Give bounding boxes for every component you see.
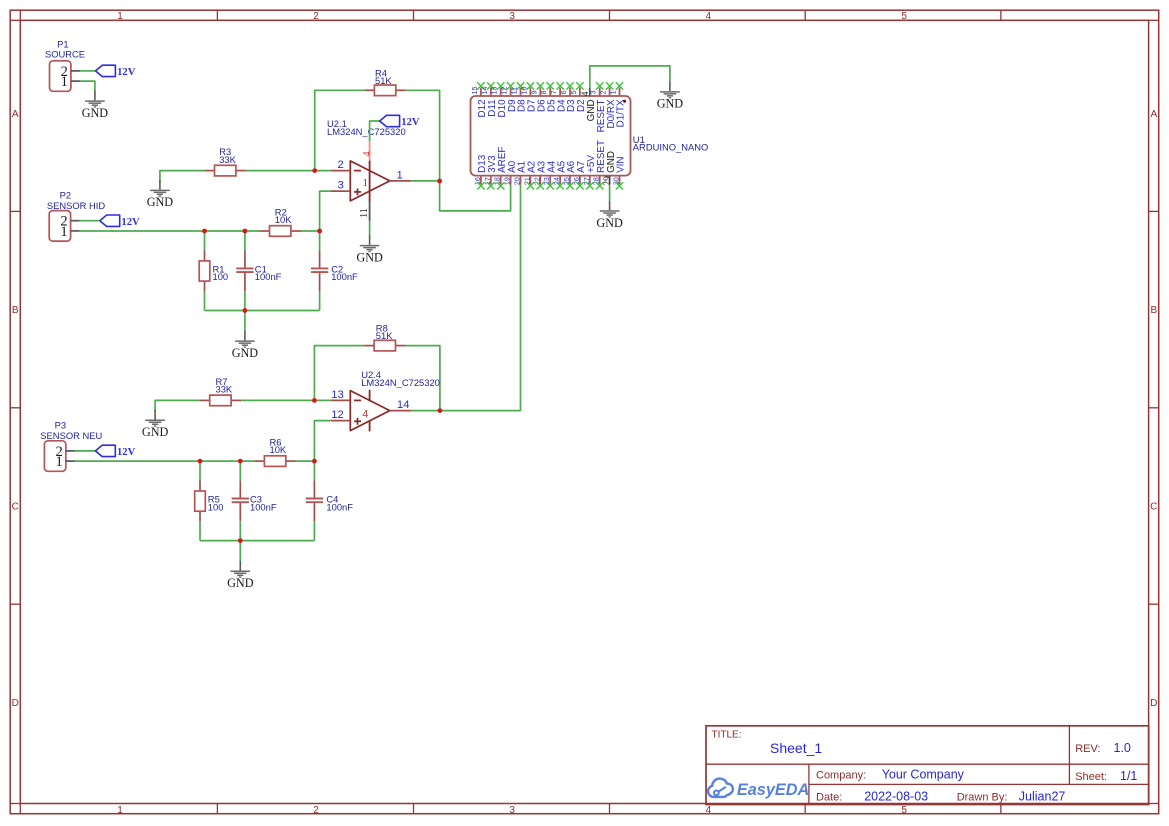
svg-text:12V: 12V	[121, 217, 140, 228]
junction at 240.3,461.1	[238, 459, 243, 464]
net flag 12V at P3	[95, 445, 135, 458]
wire output U2.1	[411, 180, 439, 182]
svg-text:10K: 10K	[275, 214, 292, 225]
wire P2 pin2 to 12V	[80, 220, 100, 222]
no-connect X U1 pin 24	[556, 182, 563, 189]
svg-text:23: 23	[543, 177, 551, 185]
U1 top pin 10 (D7)	[520, 86, 537, 112]
svg-text:Drawn By:: Drawn By:	[957, 791, 1008, 803]
U1 top pin 14 (D11)	[481, 86, 498, 116]
svg-text:1: 1	[363, 177, 369, 189]
svg-text:12: 12	[501, 86, 509, 94]
wire R4 riser left	[315, 90, 365, 170]
title block frame	[706, 726, 1149, 805]
svg-text:A: A	[1150, 109, 1157, 120]
svg-text:7: 7	[550, 90, 558, 94]
U1 bottom pin 28 (RESET)	[593, 140, 607, 185]
svg-text:D: D	[1150, 698, 1157, 709]
no-connect X U1 pin 23	[547, 182, 554, 189]
wire node to opamp pin12 riser	[314, 421, 330, 462]
svg-text:5: 5	[901, 11, 907, 22]
svg-text:1: 1	[396, 169, 402, 181]
svg-text:1.0: 1.0	[1114, 741, 1131, 755]
wire P1 pin1 to GND	[80, 81, 95, 91]
title block Company	[816, 768, 965, 782]
wire C4 to bottom rail	[313, 521, 315, 541]
wire R4 right down to output	[406, 90, 440, 181]
U1 bottom pin 18 (AREF)	[494, 147, 508, 186]
U1 top pin 7 (D4)	[550, 88, 567, 112]
no-connect X U1 pin 9	[537, 82, 544, 89]
svg-text:2: 2	[313, 11, 319, 22]
svg-text:4: 4	[362, 152, 373, 157]
junction at 314.7,170.6	[312, 168, 317, 173]
wire C2 to bottom rail	[319, 291, 321, 311]
pin 3 non-inverting input U2.1	[331, 180, 351, 192]
EasyEDA logo	[708, 779, 809, 799]
svg-text:51K: 51K	[376, 330, 393, 341]
no-connect X U1 pin 25	[566, 182, 573, 189]
pin 2 inverting input U2.1	[331, 159, 351, 171]
svg-text:Sheet:: Sheet:	[1075, 771, 1107, 783]
no-connect X U1 pin 1	[616, 82, 623, 89]
U1 bottom pin 21 (A2)	[523, 161, 537, 185]
junction at 439.6,181.0	[437, 179, 442, 184]
svg-text:1: 1	[117, 805, 123, 816]
no-connect X U1 pin 13	[497, 82, 504, 89]
svg-text:12V: 12V	[117, 447, 136, 458]
pin 4 power stub U2.4	[369, 390, 371, 401]
svg-text:27: 27	[583, 177, 591, 185]
wire C1 branch	[244, 231, 246, 251]
connector P1 SOURCE	[45, 38, 85, 91]
svg-text:SENSOR HID: SENSOR HID	[47, 200, 106, 211]
svg-text:GND: GND	[657, 97, 684, 111]
svg-text:3: 3	[509, 11, 515, 22]
junction at 314.4,461.1	[312, 459, 317, 464]
svg-text:1: 1	[61, 74, 68, 90]
svg-text:Julian27: Julian27	[1019, 789, 1066, 803]
svg-text:B: B	[12, 305, 19, 316]
svg-text:Company:: Company:	[816, 770, 866, 782]
wire output to A0 pin19	[440, 181, 511, 211]
svg-text:14: 14	[481, 86, 489, 94]
resistor R2 10K	[260, 207, 301, 237]
svg-text:1: 1	[56, 454, 63, 470]
svg-text:11: 11	[359, 208, 370, 218]
svg-text:100nF: 100nF	[331, 271, 358, 282]
svg-text:B: B	[1150, 305, 1157, 316]
no-connect X U1 pin 15	[477, 82, 484, 89]
junction at 200.0,461.1	[198, 459, 203, 464]
IC U1 ARDUINO_NANO body	[471, 96, 709, 176]
svg-text:14: 14	[397, 399, 410, 411]
svg-text:22: 22	[533, 177, 541, 185]
svg-text:GND: GND	[227, 576, 254, 590]
U1 top pin 3 (RESET)	[590, 88, 607, 133]
svg-text:GND: GND	[232, 346, 259, 360]
svg-text:30: 30	[613, 177, 621, 185]
svg-text:EasyEDA: EasyEDA	[737, 781, 809, 799]
no-connect X U1 pin 10	[527, 82, 534, 89]
U1 top pin 4 (GND)	[580, 88, 597, 122]
svg-text:1/1: 1/1	[1120, 769, 1137, 783]
svg-text:5: 5	[901, 805, 907, 816]
no-connect X U1 pin 22	[537, 182, 544, 189]
svg-text:11: 11	[511, 87, 519, 94]
ground GND at U1 top	[657, 82, 684, 111]
svg-text:100: 100	[213, 271, 229, 282]
wire P1 pin2 to 12V	[80, 70, 95, 72]
net flag 12V at P1	[96, 65, 136, 78]
wire stage1 rail to GND	[244, 311, 246, 331]
svg-text:Your Company: Your Company	[882, 768, 965, 782]
wire stage2 rail to GND	[239, 541, 241, 561]
U1 bottom pin 25 (A6)	[563, 160, 577, 185]
junction at 244.9,310.5	[243, 308, 248, 313]
capacitor C1 100nF	[236, 251, 281, 292]
svg-text:Date:: Date:	[816, 791, 842, 803]
U1 top pin 1 (D1/TX)	[610, 88, 627, 128]
svg-text:100nF: 100nF	[255, 271, 282, 282]
svg-text:LM324N_C725320: LM324N_C725320	[361, 377, 440, 388]
wire C1 to bottom rail	[244, 291, 246, 311]
resistor R5 100	[195, 480, 224, 521]
svg-text:C: C	[12, 502, 19, 513]
U1 bottom pin 19 (A0)	[504, 160, 518, 185]
svg-text:17: 17	[484, 177, 492, 185]
svg-text:13: 13	[491, 86, 499, 94]
svg-text:4: 4	[706, 805, 712, 816]
svg-text:20: 20	[514, 177, 522, 185]
svg-text:21: 21	[523, 177, 531, 185]
svg-text:Sheet_1: Sheet_1	[770, 740, 822, 756]
wire R1 branch	[204, 231, 206, 250]
svg-text:3: 3	[509, 805, 515, 816]
ground GND at U1 bottom	[596, 201, 623, 230]
no-connect X U1 pin 8	[547, 82, 554, 89]
pin 11 power stub U2.4	[369, 420, 371, 431]
svg-text:18: 18	[494, 177, 502, 185]
op-amp U2.1 LM324N_C725320	[327, 118, 406, 201]
wire R3 left to GND riser	[160, 171, 205, 182]
wire R8 right down to output	[406, 346, 440, 411]
no-connect X U1 pin 12	[507, 82, 514, 89]
svg-text:33K: 33K	[216, 384, 233, 395]
U1 top pin 9 (D6)	[530, 88, 547, 112]
svg-text:TITLE:: TITLE:	[712, 730, 742, 741]
no-connect X U1 pin 5	[576, 82, 583, 89]
svg-text:4: 4	[706, 11, 712, 22]
connector P3 SENSOR NEU	[40, 420, 102, 472]
wire C4 branch	[313, 461, 315, 481]
U1 bottom pin 27 (+5V)	[583, 155, 597, 185]
capacitor C3 100nF	[232, 481, 277, 521]
pin 13 inverting input U2.4	[331, 389, 351, 401]
svg-text:25: 25	[563, 177, 571, 185]
title block Sheet	[1075, 769, 1137, 783]
svg-text:6: 6	[560, 90, 568, 94]
no-connect X U1 pin 7	[556, 82, 563, 89]
U1 top pin 2 (D0/RX)	[600, 88, 617, 129]
op-amp U2.4 LM324N_C725320	[350, 369, 440, 431]
resistor R8 51K	[364, 323, 405, 351]
svg-text:28: 28	[593, 177, 601, 185]
no-connect X U1 pin 27	[586, 182, 593, 189]
svg-text:8: 8	[540, 90, 548, 94]
resistor R7 33K	[200, 376, 241, 406]
junction at 319.6,231.0	[317, 229, 322, 234]
U1 pin1 marker dot	[623, 100, 626, 103]
wire P3 pin1 main net	[75, 460, 254, 462]
svg-text:A: A	[12, 109, 19, 120]
no-connect X U1 pin 21	[527, 182, 534, 189]
svg-text:100nF: 100nF	[326, 501, 353, 512]
U1 bottom pin 30 (VIN)	[613, 156, 627, 185]
title block Drawn By	[957, 789, 1066, 803]
svg-text:26: 26	[573, 177, 581, 185]
svg-text:9: 9	[530, 90, 538, 94]
svg-text:16: 16	[474, 177, 482, 185]
U1 bottom pin 16 (D13)	[474, 154, 488, 185]
svg-text:5: 5	[570, 90, 578, 94]
U1 top pin 8 (D5)	[540, 88, 557, 112]
svg-text:2: 2	[600, 90, 608, 94]
pin 12 non-inverting input U2.4	[331, 409, 351, 421]
svg-text:3: 3	[590, 90, 598, 94]
wire output U2.4	[411, 410, 440, 412]
U1 bottom pin 24 (A5)	[553, 160, 567, 185]
wire pin11 to GND	[369, 221, 371, 236]
svg-text:D: D	[12, 698, 19, 709]
U1 bottom pin 23 (A4)	[543, 160, 557, 185]
no-connect X U1 pin 6	[566, 82, 573, 89]
junction at 314.4,400.4	[312, 398, 317, 403]
connector P2 SENSOR HID	[47, 189, 106, 241]
junction at 439.9,410.6	[438, 408, 443, 413]
resistor R3 33K	[205, 146, 246, 176]
wire pin4 to 12V flag	[370, 121, 380, 141]
wire output to A1 pin20	[440, 184, 521, 410]
pin 1 output U2.1	[390, 169, 412, 181]
svg-text:12: 12	[331, 409, 344, 421]
svg-text:GND: GND	[596, 216, 623, 230]
svg-text:1: 1	[610, 90, 618, 94]
wire node to opamp pin3 riser	[320, 191, 331, 231]
no-connect X U1 pin 18	[497, 182, 504, 189]
svg-text:10: 10	[520, 86, 528, 94]
U1 bottom pin 22 (A3)	[533, 160, 547, 185]
wire R2 right to node	[301, 230, 320, 232]
svg-text:GND: GND	[356, 251, 383, 265]
svg-text:SOURCE: SOURCE	[45, 48, 85, 59]
wire R7 right to opamp pin13	[241, 399, 331, 401]
svg-text:ARDUINO_NANO: ARDUINO_NANO	[633, 142, 709, 153]
ground GND stage1	[232, 331, 259, 360]
svg-text:P2: P2	[60, 189, 71, 200]
wire bottom rail stage1	[205, 310, 320, 312]
U1 top pin 11 (D8)	[511, 87, 528, 112]
U1 bottom pin 20 (A1)	[514, 160, 528, 185]
no-connect X U1 pin 3	[596, 82, 603, 89]
svg-text:D1/TX: D1/TX	[616, 99, 627, 127]
svg-text:51K: 51K	[375, 75, 392, 86]
no-connect X U1 pin 14	[487, 82, 494, 89]
svg-text:4: 4	[362, 409, 368, 421]
U1 top pin 6 (D3)	[560, 88, 577, 112]
svg-text:12V: 12V	[401, 117, 420, 128]
wire R7 left to GND riser	[155, 400, 200, 412]
svg-text:C: C	[1150, 502, 1157, 513]
svg-text:15: 15	[471, 86, 479, 94]
U1 top pin 5 (D2)	[570, 88, 587, 112]
wire P2 pin1 main net	[80, 230, 260, 232]
wire R1 to bottom rail	[204, 292, 206, 311]
pin 4 power V+ U2.1	[362, 141, 373, 201]
svg-text:GND: GND	[147, 195, 174, 209]
wire C3 branch	[239, 461, 241, 481]
no-connect X U1 pin 16	[477, 182, 484, 189]
resistor R1 100	[199, 250, 228, 291]
svg-text:24: 24	[553, 177, 561, 185]
U1 top pin 15 (D12)	[471, 86, 488, 117]
U1 bottom pin 17 (3V3)	[484, 155, 498, 185]
resistor R4 51K	[364, 67, 405, 95]
resistor R6 10K	[254, 437, 295, 467]
svg-text:3: 3	[338, 180, 344, 192]
wire U1 pin29 GND to ground	[609, 184, 611, 200]
svg-text:REV:: REV:	[1075, 743, 1100, 755]
wire R5 to bottom rail	[199, 522, 201, 541]
ground GND at P1	[82, 91, 109, 120]
capacitor C4 100nF	[306, 481, 354, 521]
svg-text:13: 13	[331, 389, 344, 401]
no-connect X U1 pin 30	[616, 182, 623, 189]
no-connect X U1 pin 17	[487, 182, 494, 189]
svg-text:12V: 12V	[117, 67, 136, 78]
junction at 240.3,540.6	[238, 538, 243, 543]
capacitor C2 100nF	[311, 251, 358, 292]
wire C3 to bottom rail	[239, 521, 241, 541]
U1 top pin 12 (D9)	[501, 86, 518, 112]
svg-text:VIN: VIN	[616, 156, 627, 172]
wire bottom rail stage2	[200, 540, 314, 542]
svg-text:GND: GND	[142, 425, 169, 439]
svg-text:33K: 33K	[219, 154, 236, 165]
no-connect X U1 pin 2	[606, 82, 613, 89]
junction at 244.9,231.0	[243, 229, 248, 234]
svg-text:100: 100	[208, 501, 224, 512]
ground GND stage2	[227, 561, 254, 590]
net flag 12V at P2	[100, 215, 140, 228]
svg-text:2: 2	[338, 159, 344, 171]
svg-text:100nF: 100nF	[250, 501, 277, 512]
svg-text:SENSOR NEU: SENSOR NEU	[40, 430, 102, 441]
title block Date	[816, 789, 928, 803]
svg-text:19: 19	[504, 177, 512, 185]
junction at 204.5,231.0	[202, 229, 207, 234]
wire R6 right to node	[296, 460, 315, 462]
U1 top pin 13 (D10)	[491, 86, 508, 117]
U1 bottom pin 26 (A7)	[573, 161, 587, 185]
wire C2 branch	[319, 231, 321, 251]
svg-text:1: 1	[60, 224, 67, 240]
net flag 12V at U2.1	[380, 115, 420, 128]
svg-text:1: 1	[117, 11, 123, 22]
no-connect X U1 pin 11	[517, 82, 524, 89]
ground GND at U2.1	[356, 235, 383, 264]
svg-text:GND: GND	[82, 106, 109, 120]
wire P3 pin2 to 12V	[75, 450, 95, 452]
ground GND at R7	[142, 410, 169, 439]
no-connect X U1 pin 26	[576, 182, 583, 189]
title block REV	[1075, 741, 1131, 755]
pin 11 power V- U2.1	[359, 201, 370, 221]
svg-text:2: 2	[313, 805, 319, 816]
svg-text:2022-08-03: 2022-08-03	[864, 789, 928, 803]
wire R5 branch	[199, 461, 201, 480]
no-connect X U1 pin 28	[596, 182, 603, 189]
ground GND at R3	[147, 180, 174, 209]
wire U1 pin4 GND to ground	[590, 66, 670, 88]
wire R3 right to opamp pin2	[246, 170, 331, 172]
svg-text:10K: 10K	[270, 444, 287, 455]
wire R8 riser left	[314, 346, 364, 401]
U1 bottom pin 29 (GND)	[602, 151, 617, 186]
pin 14 output U2.4	[390, 399, 412, 411]
